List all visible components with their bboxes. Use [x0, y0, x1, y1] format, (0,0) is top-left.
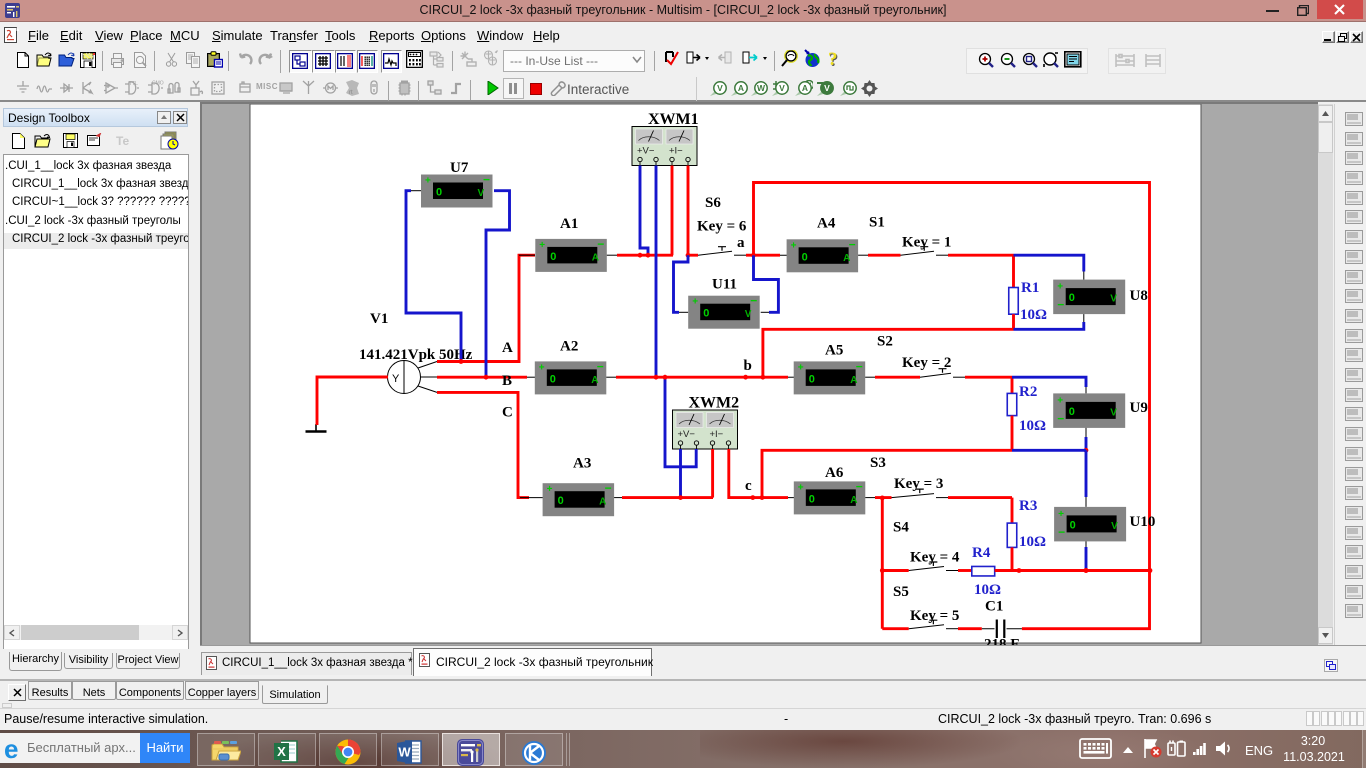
- svg-text:+: +: [425, 176, 431, 187]
- voltmeter U9: [1053, 393, 1148, 428]
- svg-text:U7: U7: [450, 160, 469, 176]
- wire XWM2 I- to node c: [729, 449, 753, 498]
- wire U10+ up to S3 net: [1085, 450, 1088, 497]
- svg-text:+I−: +I−: [669, 146, 683, 157]
- U7 right pin stub: [494, 190, 504, 192]
- U8 top stub: [1083, 272, 1085, 280]
- A1 right stub: [607, 254, 617, 256]
- wire XWM1 I+ down: [671, 166, 674, 256]
- wire S6 to node a / A4+: [746, 254, 780, 257]
- svg-text:XWM2: XWM2: [689, 395, 740, 412]
- wire A6- to junction: [875, 496, 892, 499]
- svg-text:R1: R1: [1021, 280, 1039, 296]
- svg-text:+: +: [539, 240, 545, 251]
- svg-text:0: 0: [550, 251, 556, 263]
- svg-text:0: 0: [558, 495, 564, 507]
- svg-text:Key = 4: Key = 4: [910, 550, 960, 566]
- svg-text:V: V: [478, 188, 485, 199]
- svg-text:b: b: [744, 358, 752, 374]
- wire U10- down to S4 net: [1085, 547, 1088, 571]
- ammeter A6: [794, 465, 866, 514]
- svg-text:A: A: [850, 495, 857, 506]
- svg-text:A: A: [738, 83, 744, 93]
- wire riser corner to S5: [882, 627, 908, 630]
- svg-text:V: V: [1111, 521, 1118, 532]
- junction XWM2 V- on B: [663, 375, 668, 380]
- junction U10- S4: [1084, 568, 1089, 573]
- wire R4 to right rail: [995, 569, 1150, 572]
- A4 right stub: [858, 254, 868, 256]
- junction U9- on S3 net: [1084, 448, 1089, 453]
- junction S2 riser on b: [761, 375, 766, 380]
- wire phase B: A2- to A5+: [616, 376, 788, 379]
- junction S4 on riser: [880, 568, 885, 573]
- junction XWM1 I- / U11+: [686, 253, 691, 258]
- svg-text:S3: S3: [870, 455, 886, 471]
- svg-text:C: C: [502, 405, 513, 421]
- svg-text:A4: A4: [817, 216, 836, 232]
- wire A4- to S1: [868, 254, 901, 257]
- svg-text:S1: S1: [869, 215, 885, 231]
- svg-text:A5: A5: [825, 343, 843, 359]
- A5 right stub: [865, 376, 875, 378]
- svg-text:B: B: [502, 373, 512, 389]
- wire S4/S5 riser: [881, 498, 884, 629]
- wire U9- down: [1085, 437, 1088, 450]
- wire R2 top lead: [1011, 377, 1014, 393]
- wire S3 net blue segment: [1012, 449, 1086, 452]
- wire A1- to XWM1 I+: [617, 254, 673, 257]
- svg-text:V: V: [717, 83, 723, 93]
- wire U7- to phase B: [486, 191, 510, 378]
- junction XWM2 V+ on c: [678, 495, 683, 500]
- junction node a: [751, 253, 756, 258]
- svg-text:A3: A3: [573, 456, 591, 472]
- wire U11- up to node a: [754, 255, 779, 312]
- wattmeter XWM2: [673, 395, 740, 450]
- svg-text:0: 0: [1069, 406, 1075, 418]
- svg-text:Key = 6: Key = 6: [697, 219, 747, 235]
- svg-text:0: 0: [802, 251, 808, 263]
- A1 left stub: [519, 254, 535, 256]
- svg-text:C1: C1: [985, 599, 1003, 615]
- svg-text:Y: Y: [392, 373, 400, 385]
- wire phase A: V1 to A1+: [437, 255, 535, 361]
- svg-text:TTL: TTL: [129, 81, 138, 87]
- junction U10- on S4 net: [1084, 568, 1089, 573]
- wire node c to A6+: [753, 496, 788, 499]
- resistor R2: [1007, 393, 1017, 415]
- svg-text:V: V: [1110, 294, 1117, 305]
- wire A5- to S2: [875, 376, 920, 379]
- svg-text:A6: A6: [825, 465, 844, 481]
- A3 left stub: [520, 497, 543, 499]
- A2 left stub: [527, 376, 535, 378]
- junction S4 net right rail: [1148, 568, 1153, 573]
- wire top loop a to right rail to C1: [754, 183, 1150, 629]
- svg-text:+: +: [1058, 509, 1064, 520]
- svg-text:S5: S5: [893, 584, 909, 600]
- A6 left stub: [753, 497, 794, 499]
- svg-text:0: 0: [809, 373, 815, 385]
- svg-text:+V−: +V−: [678, 429, 696, 440]
- svg-text:+: +: [798, 362, 804, 373]
- A3 right stub: [614, 497, 622, 499]
- U9 bottom stub: [1085, 428, 1087, 437]
- svg-text:−: −: [856, 479, 863, 493]
- wire U8- to R1 bottom: [1014, 322, 1084, 329]
- svg-text:−: −: [1058, 525, 1065, 539]
- svg-text:S4: S4: [893, 520, 909, 536]
- svg-text:U9: U9: [1130, 400, 1148, 416]
- svg-text:+: +: [1057, 282, 1063, 293]
- svg-text:−: −: [856, 359, 863, 373]
- svg-text:0: 0: [1070, 519, 1076, 531]
- white schematic page: [250, 104, 1201, 643]
- wire XWM2 V- to phase B: [665, 377, 696, 467]
- A4 left stub: [746, 254, 787, 256]
- A2 right stub: [606, 376, 616, 378]
- wire R2 bottom lead: [1011, 416, 1014, 451]
- svg-text:R2: R2: [1019, 384, 1037, 400]
- wire S3 to R3 top: [948, 496, 1012, 499]
- svg-text:A: A: [843, 253, 850, 264]
- svg-text:U8: U8: [1130, 288, 1148, 304]
- wire S3 net to node c: [762, 450, 1012, 497]
- junction XWM1 V- on B: [654, 375, 659, 380]
- wire S4 to R4: [958, 569, 972, 572]
- resistor R3: [1007, 523, 1017, 547]
- ammeter A3: [543, 456, 615, 517]
- svg-text:10Ω: 10Ω: [974, 582, 1001, 598]
- wire R1 top to U8+: [1014, 255, 1084, 271]
- svg-text:c: c: [745, 478, 752, 494]
- voltmeter U10: [1054, 507, 1155, 542]
- svg-text:0: 0: [550, 373, 556, 385]
- svg-text:10Ω: 10Ω: [1019, 534, 1046, 550]
- svg-text:+: +: [539, 362, 545, 373]
- wire R2 top to U9+: [1012, 377, 1086, 387]
- svg-text:0: 0: [703, 308, 709, 320]
- U9 top stub: [1085, 387, 1087, 393]
- svg-text:a: a: [737, 235, 745, 251]
- svg-text:−: −: [483, 173, 490, 187]
- switch S2: [920, 369, 965, 378]
- resistor R1: [1009, 288, 1019, 315]
- junction XWM1 V+: [638, 253, 643, 258]
- svg-text:V1: V1: [370, 311, 388, 327]
- wire XWM2 I+ down: [711, 449, 714, 498]
- voltmeter U11: [688, 277, 760, 329]
- svg-text:S6: S6: [705, 195, 721, 211]
- ammeter A1: [535, 216, 607, 272]
- wire R3 bottom lead: [1011, 547, 1014, 570]
- svg-text:+: +: [798, 482, 804, 493]
- junction node c: [750, 495, 755, 500]
- svg-text:V: V: [779, 83, 785, 93]
- svg-text:V: V: [745, 309, 752, 320]
- switch S4: [909, 562, 958, 571]
- junction node b: [743, 375, 748, 380]
- wire R1 top lead: [1012, 255, 1015, 287]
- svg-text:V: V: [1110, 407, 1117, 418]
- wire S5 to C1: [958, 627, 982, 630]
- svg-text:10Ω: 10Ω: [1020, 307, 1047, 323]
- svg-text:V: V: [824, 83, 830, 93]
- svg-text:A: A: [802, 83, 808, 93]
- svg-text:XWM1: XWM1: [648, 111, 699, 128]
- svg-text:A: A: [591, 375, 598, 386]
- voltmeter U7: [421, 160, 493, 208]
- svg-text:U10: U10: [1130, 514, 1156, 530]
- svg-text:+: +: [1057, 395, 1063, 406]
- svg-text:+I−: +I−: [710, 429, 724, 440]
- ammeter A5: [794, 343, 866, 395]
- wire V1 neutral to ground: [317, 377, 388, 425]
- svg-text:−: −: [597, 237, 604, 251]
- wire phase B: V1 to A2+: [437, 376, 527, 379]
- svg-text:A: A: [592, 252, 599, 263]
- voltmeter U8: [1053, 280, 1148, 315]
- svg-text:Key = 5: Key = 5: [910, 608, 959, 624]
- svg-text:Key = 1: Key = 1: [902, 235, 951, 251]
- svg-text:+: +: [791, 240, 797, 251]
- svg-text:A: A: [599, 497, 606, 508]
- junction U7+ on A: [459, 359, 464, 364]
- svg-text:−: −: [597, 359, 604, 373]
- switch S3: [892, 489, 949, 498]
- svg-text:218 F: 218 F: [984, 637, 1019, 646]
- A5 left stub: [780, 376, 794, 378]
- wire A3- to XWM2 I+: [622, 496, 713, 499]
- svg-text:−: −: [605, 481, 612, 495]
- wire R1 bottom to node b riser: [763, 329, 1014, 377]
- svg-text:−: −: [849, 237, 856, 251]
- svg-text:S2: S2: [877, 334, 893, 350]
- svg-text:CMOS: CMOS: [152, 81, 164, 87]
- wattmeter XWM1: [632, 111, 699, 166]
- svg-text:+V−: +V−: [637, 146, 655, 157]
- svg-text:+: +: [692, 297, 698, 308]
- U11 left stub: [679, 311, 688, 313]
- svg-text:10Ω: 10Ω: [1019, 418, 1046, 434]
- junction U7- on B: [484, 375, 489, 380]
- wire U11+ up to wire a-side: [674, 255, 689, 312]
- svg-text:U11: U11: [712, 277, 737, 293]
- U11 right stub: [761, 311, 769, 313]
- svg-text:X: X: [277, 744, 286, 759]
- svg-text:0: 0: [436, 187, 442, 199]
- svg-text:A: A: [850, 375, 857, 386]
- wire U7+ to phase A: [406, 191, 461, 362]
- wire XWM1 I- to S6: [688, 166, 698, 256]
- U8 bottom stub: [1083, 314, 1085, 322]
- switch S6: [698, 247, 746, 256]
- ground: [306, 424, 327, 432]
- svg-text:A: A: [502, 340, 513, 356]
- svg-text:−: −: [1057, 411, 1064, 425]
- svg-text:+: +: [547, 484, 553, 495]
- svg-text:0: 0: [809, 493, 815, 505]
- junction S3 riser on c: [760, 495, 765, 500]
- junction XWM1 V+ b: [646, 253, 651, 258]
- svg-text:−: −: [750, 294, 757, 308]
- junction A6- / S4 riser: [880, 496, 885, 501]
- wire S2 to R2 top: [965, 376, 1012, 379]
- U10 bottom stub: [1085, 541, 1087, 547]
- wire XWM1 V+ down to phase A: [640, 166, 648, 256]
- wire riser to S4: [882, 569, 908, 572]
- source V1: [380, 361, 437, 394]
- svg-text:A2: A2: [560, 339, 578, 355]
- wire R1 bottom lead: [1012, 314, 1015, 329]
- wire phase C: V1 to A3+: [437, 392, 529, 497]
- svg-text:W: W: [398, 745, 411, 760]
- resistor R4: [972, 566, 995, 576]
- A6 right stub: [865, 497, 875, 499]
- svg-text:W: W: [757, 83, 766, 93]
- U10 top stub: [1085, 497, 1087, 507]
- switch S5: [909, 620, 958, 629]
- svg-text:R4: R4: [972, 545, 991, 561]
- svg-text:−: −: [1057, 298, 1064, 312]
- ammeter A2: [535, 339, 607, 395]
- svg-text:A1: A1: [560, 216, 578, 232]
- wire R3 top lead: [1011, 498, 1014, 523]
- wire XWM1 V- down to phase B: [655, 166, 658, 378]
- svg-text:R3: R3: [1019, 498, 1037, 514]
- wire XWM2 V+ down to wire c: [679, 449, 682, 498]
- ammeter A4: [787, 216, 859, 273]
- svg-text:0: 0: [1069, 292, 1075, 304]
- U7 left pin stub: [411, 190, 421, 192]
- capacitor C1: [982, 620, 1022, 639]
- wire S1 to R1 top: [948, 254, 1014, 257]
- switch S1: [901, 247, 949, 256]
- svg-text:rt: rt: [349, 90, 353, 96]
- junction R3 bottom on S4 net: [1017, 568, 1022, 573]
